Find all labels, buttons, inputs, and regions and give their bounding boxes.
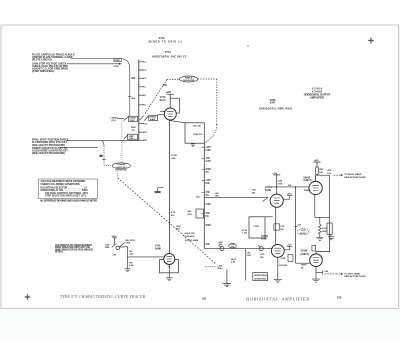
svg-text:18K: 18K — [252, 192, 256, 194]
svg-text:(12BY7): (12BY7) — [301, 254, 310, 256]
svg-text:-150: -150 — [205, 158, 210, 160]
svg-text:ALL REFERENCE READINGS WITH 20: ALL REFERENCE READINGS WITH 20,000 OHM/V… — [40, 200, 97, 203]
svg-text:(ELEV): (ELEV) — [300, 233, 307, 235]
svg-text:(STEP AMPLIFIER): (STEP AMPLIFIER) — [32, 70, 54, 73]
svg-text:45K: 45K — [131, 97, 135, 100]
svg-text:2.2M: 2.2M — [247, 255, 252, 257]
svg-text:ZERO: ZERO — [301, 265, 307, 267]
svg-text:(HORIZ GAIN): (HORIZ GAIN) — [185, 239, 199, 242]
svg-text:575: 575 — [337, 296, 342, 300]
svg-text:6.3: 6.3 — [100, 155, 103, 157]
svg-text:45K: 45K — [131, 77, 136, 80]
svg-text:5%: 5% — [131, 130, 134, 132]
svg-text:V344A: V344A — [303, 176, 310, 179]
svg-text:+225: +225 — [314, 160, 320, 162]
svg-text:+100: +100 — [205, 180, 211, 182]
svg-text:+225: +225 — [166, 92, 172, 94]
svg-text:4.7M: 4.7M — [231, 260, 236, 263]
svg-text:1.8K: 1.8K — [215, 196, 220, 198]
svg-text:82K: 82K — [283, 265, 287, 267]
svg-text:40K: 40K — [188, 210, 192, 213]
svg-text:ADJ: ADJ — [176, 228, 180, 231]
svg-text:10K: 10K — [205, 183, 210, 185]
svg-text:HORIZ ADJ: HORIZ ADJ — [116, 166, 126, 169]
svg-text:+350: +350 — [162, 85, 168, 87]
svg-text:33K 1W: 33K 1W — [193, 126, 202, 128]
svg-text:100K: 100K — [281, 258, 286, 260]
svg-text:FINE: FINE — [105, 247, 110, 249]
svg-text:AB: AB — [202, 297, 206, 301]
svg-text:+350: +350 — [195, 197, 199, 199]
svg-text:AMPLIFIER: AMPLIFIER — [310, 96, 324, 100]
svg-text:+225: +225 — [260, 254, 264, 256]
svg-text:HORIZ DISPLAY SW . . . . . . .: HORIZ DISPLAY SW . . . . . . . . . . . .… — [41, 189, 89, 192]
svg-text:8.2M: 8.2M — [322, 228, 327, 230]
svg-text:(PNL): (PNL) — [217, 268, 223, 270]
svg-text:20K: 20K — [219, 244, 223, 246]
svg-text:2.5K: 2.5K — [171, 158, 176, 160]
svg-text:37.5K: 37.5K — [254, 226, 260, 228]
svg-text:1.2K: 1.2K — [280, 226, 285, 228]
svg-text:REGULATED: REGULATED — [183, 79, 195, 82]
svg-text:HORIZONTAL PHC INV CF: HORIZONTAL PHC INV CF — [152, 56, 187, 59]
svg-text:6AN8: 6AN8 — [265, 189, 272, 192]
svg-text:(12BY7): (12BY7) — [303, 180, 312, 182]
svg-text:1.8K: 1.8K — [252, 190, 257, 192]
svg-text:GAIN: GAIN — [150, 118, 156, 121]
svg-text:DEFLECTION PLATE: DEFLECTION PLATE — [344, 176, 366, 179]
svg-text:V344B: V344B — [301, 250, 308, 253]
svg-text:2.2M: 2.2M — [278, 180, 283, 182]
svg-text:TO LEFT HAND: TO LEFT HAND — [344, 272, 360, 275]
svg-text:HOLD OFF: HOLD OFF — [185, 233, 196, 235]
svg-text:V714: V714 — [165, 50, 172, 54]
svg-text:6AN8: 6AN8 — [155, 247, 162, 250]
svg-text:1.7K: 1.7K — [327, 173, 332, 175]
svg-text:250K: 250K — [205, 169, 211, 171]
svg-text:HORIZONTAL AMPLIFIER: HORIZONTAL AMPLIFIER — [245, 297, 309, 302]
svg-text:VOLTAGE CONTROL SETTINGS -150V: VOLTAGE CONTROL SETTINGS -150V — [45, 192, 88, 195]
svg-text:1.2M: 1.2M — [242, 232, 247, 234]
svg-text:COARSE: COARSE — [117, 163, 126, 166]
svg-text:4.7M: 4.7M — [205, 160, 210, 163]
svg-text:ADJ R714: ADJ R714 — [125, 239, 135, 242]
svg-text:-150V: -150V — [300, 230, 306, 232]
svg-text:ELEV: ELEV — [115, 60, 121, 62]
svg-text:V347B: V347B — [261, 235, 268, 238]
svg-text:NABLA: NABLA — [185, 76, 193, 79]
svg-text:2AG2: 2AG2 — [231, 258, 236, 261]
svg-text:ADJ: ADJ — [188, 213, 192, 216]
svg-text:DISP: DISP — [130, 120, 135, 122]
svg-text:100K: 100K — [125, 243, 130, 245]
svg-text:TYPE 575 CHARACTERISTIC-CURVE: TYPE 575 CHARACTERISTIC-CURVE TRACER — [60, 295, 146, 299]
svg-text:2.2M: 2.2M — [129, 265, 134, 267]
svg-text:WIRED TO GRID L2: WIRED TO GRID L2 — [149, 41, 183, 43]
svg-text:47K: 47K — [205, 191, 210, 194]
svg-text:6AN8: 6AN8 — [261, 238, 268, 241]
svg-text:UNDER FOLLOWING CONDITIONS:: UNDER FOLLOWING CONDITIONS: — [41, 183, 81, 186]
svg-text:(PLATE CIRCUIT): (PLATE CIRCUIT) — [32, 58, 52, 61]
svg-text:6CL6: 6CL6 — [160, 99, 167, 102]
svg-text:V347A: V347A — [265, 186, 272, 189]
svg-text:47K: 47K — [288, 184, 292, 187]
svg-text:27.5K: 27.5K — [171, 155, 177, 157]
svg-text:1.5M: 1.5M — [205, 150, 210, 152]
svg-text:SERIAL.: SERIAL. — [55, 251, 64, 254]
svg-text:TO RIGHT HAND: TO RIGHT HAND — [344, 173, 361, 176]
svg-text:100K: 100K — [176, 226, 181, 228]
svg-text:V713: V713 — [158, 36, 165, 40]
svg-text:12K: 12K — [280, 229, 284, 231]
svg-text:220K 5%: 220K 5% — [193, 134, 202, 136]
svg-text:47K: 47K — [205, 212, 210, 215]
svg-text:250K: 250K — [205, 225, 211, 227]
svg-text:+100: +100 — [272, 173, 278, 175]
svg-text:DEFLECTION PLATE: DEFLECTION PLATE — [344, 275, 366, 278]
svg-text:V347: V347 — [270, 102, 276, 105]
svg-text:(1%): (1%) — [111, 120, 116, 122]
svg-text:HORIZONTAL AMPLIFIER: HORIZONTAL AMPLIFIER — [259, 107, 292, 110]
svg-text:+100: +100 — [297, 225, 301, 227]
svg-text:V714: V714 — [155, 244, 161, 247]
svg-text:+350: +350 — [205, 147, 211, 149]
svg-text:(POSITION): (POSITION) — [116, 170, 127, 172]
svg-text:+100: +100 — [323, 271, 329, 273]
svg-text:+PHC: +PHC — [327, 170, 333, 172]
svg-text:100K: 100K — [278, 183, 283, 185]
svg-text:10K: 10K — [319, 172, 323, 174]
svg-text:(POSITION): (POSITION) — [255, 278, 266, 280]
svg-text:HORIZONTAL: HORIZONTAL — [254, 274, 268, 277]
svg-text:WW: WW — [319, 169, 323, 171]
svg-text:(CAL ADJ): (CAL ADJ) — [185, 235, 195, 238]
svg-text:STEP SELECTOR SWITCH SET 117V: STEP SELECTOR SWITCH SET 117V — [45, 195, 86, 197]
svg-text:1.5M: 1.5M — [205, 204, 210, 206]
svg-text:47K: 47K — [205, 243, 210, 246]
svg-text:(SEE ADJUST PROCEDURE): (SEE ADJUST PROCEDURE) — [32, 152, 65, 155]
svg-text:4.7K: 4.7K — [171, 211, 176, 214]
